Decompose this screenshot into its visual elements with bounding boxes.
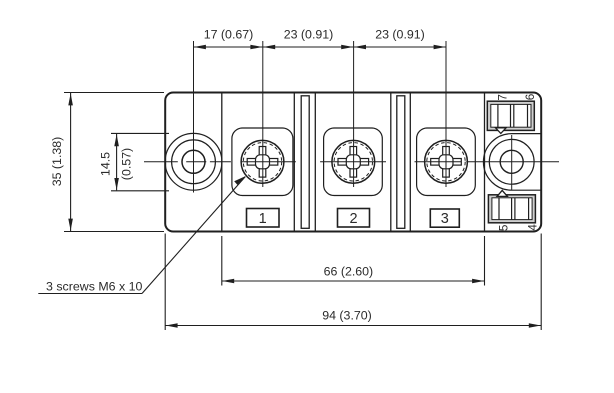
right mounting boss (half stadium) xyxy=(483,134,540,191)
dim line 23 (second) xyxy=(354,46,446,48)
vertical centerline screw 2 / ext line xyxy=(353,41,355,187)
svg-text:3 screws M6 x 10: 3 screws M6 x 10 xyxy=(46,280,143,294)
svg-text:7: 7 xyxy=(497,94,510,101)
faston tab group bottom (terminals 5,4) xyxy=(488,190,535,222)
label box terminal 2 xyxy=(338,209,370,228)
screw 2 head xyxy=(332,140,375,183)
divider wall before right end section xyxy=(484,94,486,231)
divider wall between section 2 and 3 xyxy=(390,94,392,231)
latch chevron bottom tab xyxy=(497,190,507,196)
svg-text:14.5: 14.5 xyxy=(99,152,113,176)
dim 66 extension lines xyxy=(221,236,223,286)
dim line 66 xyxy=(222,280,485,282)
svg-text:2: 2 xyxy=(349,211,357,227)
svg-text:3: 3 xyxy=(441,211,449,227)
module body outline xyxy=(165,93,541,232)
label box terminal 1 xyxy=(247,209,280,228)
divider wall between section 1 and 2 xyxy=(293,94,295,231)
svg-text:35 (1.38): 35 (1.38) xyxy=(50,137,64,187)
terminal pad 3 xyxy=(417,128,476,196)
vertical centerline screw 1 / ext line xyxy=(262,41,264,187)
svg-text:17 (0.67): 17 (0.67) xyxy=(204,28,254,42)
screw 1 head xyxy=(241,140,284,183)
svg-text:66 (2.60): 66 (2.60) xyxy=(324,264,374,278)
screw 3 head xyxy=(425,140,468,183)
right mounting hole washer xyxy=(489,139,534,184)
dimension graphics xyxy=(38,45,541,330)
svg-text:1: 1 xyxy=(259,211,267,227)
left flange divider wall xyxy=(221,94,223,231)
svg-text:23 (0.91): 23 (0.91) xyxy=(284,28,334,42)
svg-text:(0.57): (0.57) xyxy=(120,148,134,180)
dim line 17 xyxy=(194,46,263,48)
svg-text:5: 5 xyxy=(497,224,510,231)
screw 3 phillips cross xyxy=(431,147,462,178)
vertical centerline right mounting hole xyxy=(511,135,513,190)
left mounting hole xyxy=(182,150,205,173)
svg-text:94 (3.70): 94 (3.70) xyxy=(322,309,372,323)
dim line 94 xyxy=(165,325,541,327)
leader line 3 screws xyxy=(38,293,142,295)
screw 2 phillips cross xyxy=(338,147,369,178)
screw 1 phillips cross xyxy=(247,147,278,178)
vertical centerline screw 3 / ext line xyxy=(445,41,447,187)
dim line 14.5 xyxy=(116,134,118,191)
dim 94 extension lines xyxy=(164,234,166,331)
svg-text:6: 6 xyxy=(524,94,537,101)
dim 14.5 extension lines xyxy=(111,132,169,134)
dim 35 extension lines xyxy=(64,92,164,94)
terminal pad 2 xyxy=(324,128,383,196)
dim line 23 (first) xyxy=(263,46,354,48)
terminal pad 1 xyxy=(232,128,293,196)
svg-text:23 (0.91): 23 (0.91) xyxy=(375,28,425,42)
svg-text:4: 4 xyxy=(526,224,539,231)
right mounting hole xyxy=(500,150,523,173)
left mounting hole washer xyxy=(172,140,216,184)
latch chevron top tab xyxy=(496,128,507,134)
label box terminal 3 xyxy=(430,209,459,227)
dim line 35 xyxy=(70,93,72,231)
faston tab group top (terminals 7,6) xyxy=(487,101,534,133)
left mounting hole boss xyxy=(165,133,222,190)
vertical centerline left mounting hole / ext line dim 17 xyxy=(193,41,195,193)
main horizontal centerline xyxy=(144,161,559,163)
